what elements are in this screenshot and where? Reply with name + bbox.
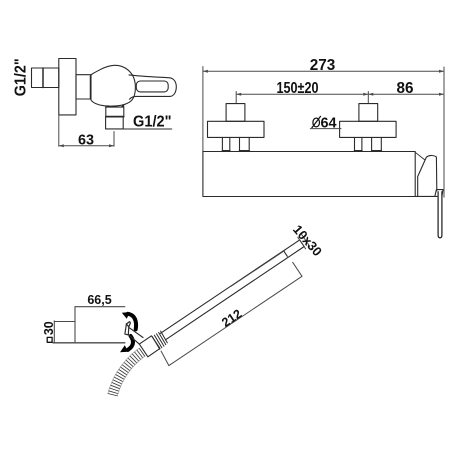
dim sq30 top ext — [54, 321, 75, 323]
hose edge outer — [117, 356, 144, 396]
tick right inlet — [367, 92, 369, 104]
swivel arrow upper — [128, 314, 136, 330]
svg-text:G1/2": G1/2" — [133, 113, 172, 130]
svg-text:30: 30 — [42, 321, 56, 335]
outlet upper — [106, 107, 124, 117]
inlet pipe — [32, 68, 59, 88]
hand shower handle — [161, 240, 305, 340]
label sq30 (rotated) — [42, 321, 56, 342]
dim 212 ext lower — [161, 351, 169, 366]
right inlet nut thread — [359, 104, 378, 122]
handle seam — [284, 251, 288, 256]
svg-text:273: 273 — [310, 57, 336, 74]
swivel arrow lower — [128, 336, 133, 350]
dim 273 line — [203, 70, 444, 72]
cartridge housing fillet — [416, 153, 425, 160]
tick left inlet — [235, 92, 237, 104]
svg-text:G1/2": G1/2" — [12, 58, 29, 96]
lever handle outer — [129, 75, 176, 99]
dim sq30 line — [53, 321, 55, 343]
head cone — [128, 327, 143, 344]
dim 10x30 line — [301, 234, 309, 246]
wall ext line — [74, 307, 76, 343]
right inlet flange — [340, 121, 397, 137]
svg-text:150±20: 150±20 — [277, 80, 319, 97]
left inlet flange — [208, 121, 265, 137]
dim 212 ext upper — [293, 262, 302, 276]
hose ribs — [108, 348, 145, 396]
wall flange — [59, 59, 76, 115]
svg-text:66,5: 66,5 — [87, 293, 111, 307]
left inlet thread — [226, 104, 245, 122]
handle socket wedge — [435, 190, 443, 196]
dim 63 line — [59, 145, 114, 147]
shower head blade — [125, 324, 129, 335]
valve body — [90, 65, 135, 106]
dim 10x30 ext — [298, 237, 306, 249]
outlet fillet left — [105, 105, 109, 107]
left inlet nut — [221, 137, 223, 151]
dim 150/86 line — [236, 93, 444, 95]
svg-text:212: 212 — [219, 307, 244, 330]
dim arrows — [203, 70, 444, 96]
outlet fillet right — [121, 104, 125, 107]
outlet lower — [106, 117, 124, 129]
pivot box — [139, 336, 160, 357]
handle bar — [438, 192, 442, 238]
ext line left — [202, 67, 204, 152]
right inlet nut — [354, 137, 356, 151]
label dia 64 — [313, 118, 320, 127]
ext line right — [443, 67, 445, 197]
handle highlight — [231, 251, 285, 287]
dia64 underline leader — [310, 128, 341, 130]
hose edge inner — [108, 348, 139, 393]
dim 63 arrows — [59, 144, 114, 147]
knurled nut — [152, 331, 167, 349]
bottom ext line — [53, 342, 125, 344]
head nub — [126, 322, 130, 327]
svg-text:86: 86 — [397, 80, 414, 97]
underline of G1/2 right — [106, 128, 172, 130]
svg-text:10x30: 10x30 — [290, 222, 325, 259]
cartridge housing — [415, 155, 437, 196]
svg-text:63: 63 — [78, 132, 94, 149]
neck — [76, 75, 91, 99]
lever handle inner — [136, 81, 168, 92]
dim 212 line — [169, 276, 302, 365]
dim 66,5 line — [75, 306, 125, 308]
dim 63 extension lines — [59, 115, 114, 146]
mixer body bar — [203, 152, 415, 197]
